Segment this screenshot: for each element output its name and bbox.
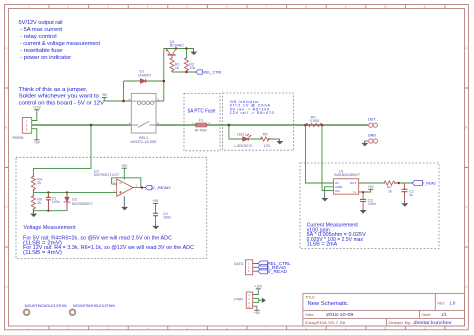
svg-text:DATA: DATA bbox=[234, 262, 244, 266]
svg-text:LED1: LED1 bbox=[237, 133, 246, 137]
svg-text:+5V: +5V bbox=[153, 199, 160, 203]
svg-text:C: C bbox=[5, 205, 7, 209]
svg-text:V_READ: V_READ bbox=[152, 185, 171, 190]
svg-text:BC848C: BC848C bbox=[170, 44, 184, 48]
svg-text:1.0: 1.0 bbox=[450, 300, 456, 305]
svg-text:dimitar.kunchev: dimitar.kunchev bbox=[414, 320, 453, 325]
svg-text:EasyEDA V5.7.26: EasyEDA V5.7.26 bbox=[305, 321, 345, 325]
svg-text:5A PTC Fuse: 5A PTC Fuse bbox=[188, 108, 216, 114]
svg-text:- resettable fuse: - resettable fuse bbox=[19, 48, 64, 54]
svg-text:(1LSB = 4mV): (1LSB = 4mV) bbox=[23, 250, 62, 256]
svg-text:control on this board - 5V or: control on this board - 5V or 12V bbox=[19, 101, 105, 107]
svg-text:A: A bbox=[466, 46, 468, 50]
svg-text:D: D bbox=[465, 285, 467, 289]
svg-text:5V/12V output rail: 5V/12V output rail bbox=[19, 20, 63, 26]
svg-text:OUT: OUT bbox=[350, 181, 357, 185]
svg-text:R5: R5 bbox=[263, 133, 268, 137]
svg-text:PWR: PWR bbox=[234, 298, 243, 302]
svg-text:BZV55B4V7: BZV55B4V7 bbox=[72, 202, 93, 206]
svg-text:REV:: REV: bbox=[438, 301, 446, 305]
svg-text:V+: V+ bbox=[353, 190, 357, 194]
svg-text:B: B bbox=[466, 126, 468, 130]
svg-text:Date:: Date: bbox=[305, 313, 314, 317]
svg-text:F1: F1 bbox=[199, 118, 203, 122]
svg-text:12V rail -> R5=470: 12V rail -> R5=470 bbox=[230, 111, 274, 115]
svg-text:PWRSEL: PWRSEL bbox=[13, 136, 25, 140]
svg-text:+5V: +5V bbox=[101, 93, 108, 97]
svg-text:- relay control: - relay control bbox=[19, 34, 57, 40]
svg-text:1u: 1u bbox=[409, 193, 413, 197]
svg-text:Voltage Measurement: Voltage Measurement bbox=[24, 225, 77, 231]
svg-text:2018-10-09: 2018-10-09 bbox=[326, 312, 354, 317]
svg-text:B: B bbox=[6, 126, 8, 130]
svg-text:2k: 2k bbox=[37, 201, 41, 205]
svg-text:100n: 100n bbox=[368, 202, 376, 206]
svg-text:- power on indicator: - power on indicator bbox=[19, 55, 72, 61]
svg-text:D2: D2 bbox=[72, 197, 77, 201]
svg-text:MF-R500: MF-R500 bbox=[195, 129, 207, 133]
svg-text:AZ9371-1A-5DE: AZ9371-1A-5DE bbox=[130, 140, 157, 144]
svg-text:1k: 1k bbox=[175, 66, 179, 70]
svg-text:MOUNTINGHOLE3.5THIN: MOUNTINGHOLE3.5THIN bbox=[73, 304, 115, 308]
svg-text:10k: 10k bbox=[189, 66, 195, 70]
svg-text:1k: 1k bbox=[388, 189, 392, 193]
svg-text:+12V: +12V bbox=[254, 284, 263, 288]
svg-text:MOUNTINGHOLE3.5THIN: MOUNTINGHOLE3.5THIN bbox=[25, 304, 67, 308]
svg-text:0.005: 0.005 bbox=[310, 119, 319, 123]
svg-text:GND: GND bbox=[368, 134, 377, 138]
svg-text:1/1: 1/1 bbox=[441, 312, 447, 317]
svg-text:I_READ: I_READ bbox=[423, 181, 436, 186]
svg-text:Drawn By:: Drawn By: bbox=[388, 321, 412, 325]
svg-text:1LSB = 2mA: 1LSB = 2mA bbox=[307, 242, 338, 248]
svg-text:MCP6001T-I/OT: MCP6001T-I/OT bbox=[94, 173, 120, 177]
svg-text:1N4007: 1N4007 bbox=[138, 73, 152, 77]
svg-text:2k: 2k bbox=[37, 181, 41, 185]
svg-text:- 5A max current: - 5A max current bbox=[19, 27, 63, 33]
svg-text:- current & voltage measuremen: - current & voltage measurement bbox=[19, 41, 101, 47]
svg-text:D: D bbox=[5, 285, 7, 289]
svg-text:INA180A3IDBVT: INA180A3IDBVT bbox=[334, 173, 361, 177]
svg-text:Sheet:: Sheet: bbox=[422, 313, 432, 317]
svg-text:OUT: OUT bbox=[368, 117, 377, 121]
svg-text:120: 120 bbox=[264, 144, 270, 148]
svg-text:Solder whichever you want to: Solder whichever you want to bbox=[19, 94, 100, 100]
svg-text:IN+: IN+ bbox=[335, 189, 340, 193]
svg-text:New Schematic: New Schematic bbox=[308, 301, 349, 307]
svg-text:+5V: +5V bbox=[34, 140, 41, 144]
svg-text:A: A bbox=[6, 46, 8, 50]
svg-text:REL_CTRL: REL_CTRL bbox=[203, 69, 223, 74]
svg-text:+5V: +5V bbox=[368, 185, 375, 189]
svg-text:TITLE:: TITLE: bbox=[305, 295, 315, 299]
svg-text:+5V: +5V bbox=[121, 164, 128, 168]
svg-text:+5V: +5V bbox=[254, 311, 261, 315]
svg-text:C: C bbox=[465, 205, 467, 209]
svg-text:V_READ: V_READ bbox=[268, 269, 288, 274]
svg-text:100n: 100n bbox=[163, 216, 171, 220]
svg-text:100n: 100n bbox=[52, 200, 60, 204]
svg-text:Think of this as a jumper.: Think of this as a jumper. bbox=[19, 87, 88, 93]
svg-text:L-1503CB/1YD: L-1503CB/1YD bbox=[234, 144, 253, 148]
